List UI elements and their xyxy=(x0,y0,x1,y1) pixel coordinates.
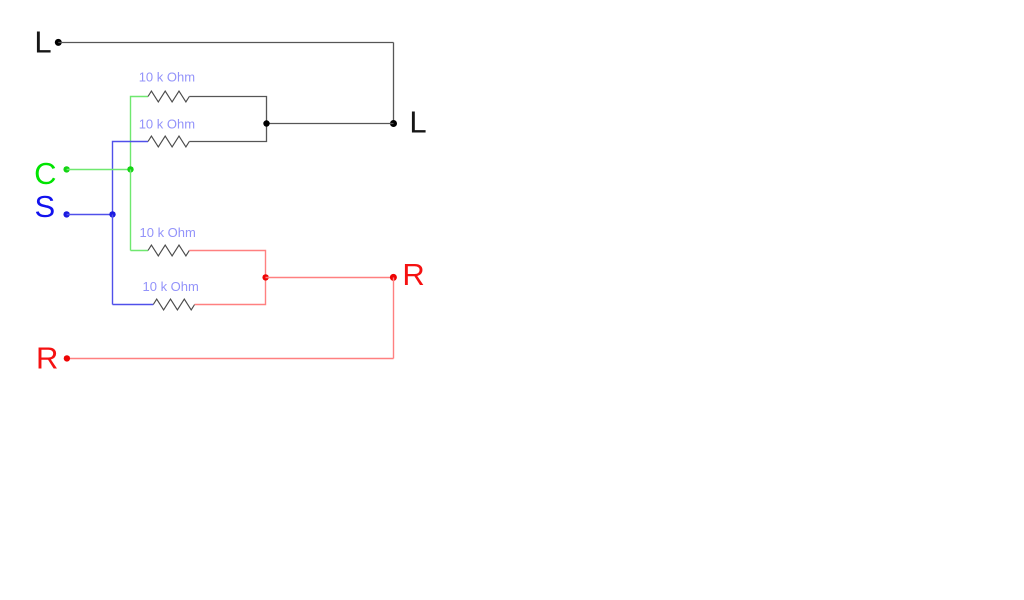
svg-text:C: C xyxy=(34,156,56,191)
wire C horizontal xyxy=(67,169,131,171)
wire junction to L right xyxy=(267,123,394,125)
node R bottom terminal dot xyxy=(64,355,70,361)
svg-text:R: R xyxy=(36,340,58,375)
wire blue vertical S net xyxy=(112,215,114,305)
wire R4 right lead red to junction xyxy=(195,278,266,305)
wire S horizontal xyxy=(67,214,113,216)
wire red bottom horizontal xyxy=(67,358,394,360)
svg-text:10 k Ohm: 10 k Ohm xyxy=(139,117,195,132)
wire R2 right lead to junction xyxy=(189,124,266,142)
resistor R2 body xyxy=(148,136,189,147)
resistor R1 body xyxy=(148,91,189,102)
junction dot S net xyxy=(109,211,115,217)
node L left terminal dot xyxy=(55,39,62,46)
wire red junction to R right xyxy=(266,277,394,279)
svg-text:L: L xyxy=(409,105,426,140)
wire blue lead to R4 xyxy=(113,304,154,306)
svg-text:10 k Ohm: 10 k Ohm xyxy=(140,225,196,240)
junction dot L net xyxy=(263,120,269,126)
wire R3 right lead red to junction xyxy=(189,251,265,278)
svg-text:10 k Ohm: 10 k Ohm xyxy=(139,69,195,84)
wire blue lead to R2 xyxy=(113,142,149,215)
svg-text:L: L xyxy=(34,25,51,60)
wire green lead to R1 xyxy=(131,97,149,170)
wire L right vertical xyxy=(393,43,395,124)
junction dot R net xyxy=(262,274,268,280)
svg-text:10 k Ohm: 10 k Ohm xyxy=(143,279,199,294)
svg-text:S: S xyxy=(35,189,56,224)
wire green vertical C net xyxy=(130,170,132,251)
node R right terminal dot xyxy=(390,274,397,281)
wire L top horizontal xyxy=(58,42,393,44)
resistor R3 body xyxy=(148,245,189,256)
svg-text:R: R xyxy=(402,257,424,292)
wire red right vertical xyxy=(393,278,395,359)
wire green lead to R3 xyxy=(131,250,149,252)
node L right junction dot xyxy=(390,120,397,127)
node S terminal dot xyxy=(63,211,69,217)
wire R1 right lead to junction xyxy=(189,97,266,124)
resistor R4 body xyxy=(153,299,194,310)
node C terminal dot xyxy=(63,166,69,172)
junction dot C net xyxy=(127,166,133,172)
